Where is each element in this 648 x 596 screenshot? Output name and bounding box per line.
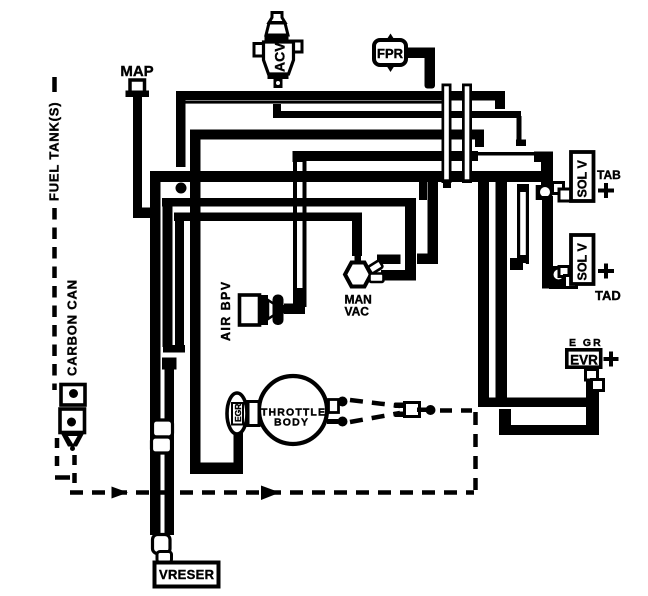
- hose 4 left corner cased drop to AIR BPV: [284, 151, 307, 314]
- svg-text:SOL V: SOL V: [576, 160, 590, 198]
- hose 3: [190, 130, 484, 148]
- stub below hose 5: [419, 182, 427, 200]
- TAD fitting white links: [559, 267, 577, 288]
- svg-text:ACV: ACV: [272, 42, 288, 72]
- hose vC down from hose 7: [175, 221, 184, 347]
- throttle body circle: [259, 376, 327, 444]
- dashed fan upper to connector: [350, 400, 400, 406]
- hose vA left riser of hose 5: [150, 171, 161, 535]
- hose vD from hose 3 corner: [190, 130, 201, 470]
- svg-text:MAP: MAP: [120, 63, 153, 80]
- ACV valve: [254, 13, 302, 89]
- dashed vertical drop: [473, 412, 478, 490]
- J hook to EGR oval: [190, 434, 243, 474]
- EVR bottom fitting: [586, 370, 604, 391]
- dot on dashed line: [426, 405, 436, 415]
- hose C from ACV corner: [273, 104, 526, 146]
- dashed line fuel tank to canister: [52, 208, 57, 390]
- bottom fitting above VRESER: [153, 535, 172, 563]
- EVR loop H2 with right leg: [499, 371, 599, 435]
- svg-text:SOL V: SOL V: [576, 243, 590, 281]
- MAN VAC hexagon: [345, 263, 371, 287]
- junction dot under hose 5: [176, 183, 187, 194]
- svg-text:EGR: EGR: [233, 404, 243, 422]
- TAB fitting white links: [553, 183, 572, 202]
- EVR loop H1: [478, 398, 588, 408]
- plus mark EVR: [604, 352, 619, 367]
- svg-text:CARBON CAN: CARBON CAN: [65, 279, 80, 376]
- throttle body right dot 1: [329, 397, 348, 413]
- distributor connector: [395, 403, 428, 418]
- EGR inner label: [232, 403, 243, 425]
- hose 4 cased right edge: [478, 152, 541, 156]
- VRESER box: [155, 563, 219, 587]
- hose 6 to MAN VAC right: [162, 198, 416, 281]
- hose va manifold to EVR: [478, 182, 489, 407]
- FPR regulator: [374, 34, 406, 73]
- SOL V box TAD: [571, 235, 594, 284]
- throttle body right dot 2: [327, 417, 348, 427]
- SOL V box TAB: [571, 152, 594, 201]
- hose manifold to MAN VAC link: [377, 182, 438, 264]
- hose 7 to MAN VAC top: [174, 213, 362, 265]
- fuel tank dash above label: [52, 77, 57, 92]
- hose vBC to VRESER: [165, 363, 175, 535]
- EGR oval: [227, 393, 247, 434]
- dashed line to corner: [440, 408, 472, 413]
- svg-text:TAD: TAD: [595, 288, 621, 303]
- hose 4 corner to TAB: [534, 152, 553, 191]
- dashed fan lower to connector: [350, 413, 400, 422]
- hose TAB blob down to TAD: [542, 196, 572, 289]
- cased hose hook below hose C: [510, 184, 529, 270]
- coupler fitting vB vC: [162, 345, 185, 370]
- hose 4 solid part: [296, 151, 478, 161]
- manifold bar 2: [462, 84, 472, 184]
- svg-text:EVR: EVR: [570, 353, 598, 368]
- svg-text:FUEL TANK(S): FUEL TANK(S): [47, 102, 62, 201]
- hose B thin line under hose A: [184, 101, 445, 104]
- EGR oval bottom stub: [235, 433, 244, 446]
- dashed lines below canister: [55, 438, 75, 488]
- MAP sensor box: [130, 80, 145, 94]
- svg-text:TAB: TAB: [597, 168, 621, 182]
- svg-text:VAC: VAC: [345, 305, 370, 319]
- dashed bottom line: [70, 490, 474, 495]
- svg-text:FPR: FPR: [377, 46, 404, 61]
- MAN VAC right links: [368, 260, 384, 282]
- hose vB down from hose 6: [163, 206, 173, 347]
- AIR BPV valve: [240, 295, 292, 326]
- plus mark TAB: [598, 183, 614, 198]
- svg-text:VRESER: VRESER: [159, 567, 215, 582]
- carbon canister body: [60, 385, 85, 452]
- svg-text:AIR BPV: AIR BPV: [219, 280, 233, 341]
- TAD fitting blob: [549, 266, 572, 289]
- manifold bar 1: [442, 84, 452, 189]
- plus mark TAD: [598, 264, 614, 279]
- arrow 2 on bottom dashed line: [261, 486, 280, 501]
- hose 5 long line: [150, 171, 542, 187]
- MAP hose: [133, 95, 158, 218]
- svg-text:E GR: E GR: [569, 337, 603, 349]
- hose A top manifold line: [176, 91, 505, 167]
- throttle body labels: [261, 407, 325, 429]
- hose vb manifold to EVR loop: [496, 182, 508, 398]
- EVR box: [567, 350, 601, 368]
- arrow 1 on bottom dashed line: [112, 487, 129, 499]
- FPR hose: [406, 48, 435, 89]
- EGR oval link to circle: [248, 402, 259, 426]
- TAB solenoid fitting blob: [536, 185, 553, 200]
- MAN VAC label: [345, 293, 372, 319]
- connector fitting on vA vBC pair: [152, 420, 173, 453]
